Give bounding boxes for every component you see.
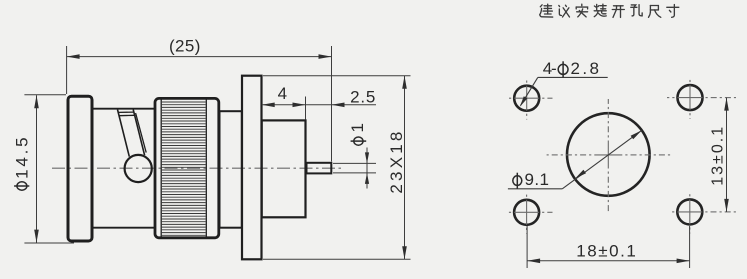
- svg-text:1: 1: [348, 123, 367, 132]
- svg-text:9.1: 9.1: [525, 170, 550, 189]
- svg-text:(25): (25): [169, 37, 201, 56]
- svg-text:13±0.1: 13±0.1: [710, 127, 727, 186]
- svg-text:2.8: 2.8: [571, 59, 600, 78]
- svg-text:4-: 4-: [543, 59, 557, 78]
- svg-text:18±0.1: 18±0.1: [576, 242, 636, 261]
- svg-text:4: 4: [278, 84, 287, 103]
- svg-text:14.5: 14.5: [13, 137, 32, 179]
- svg-text:23X18: 23X18: [387, 132, 406, 194]
- svg-text:2.5: 2.5: [350, 88, 375, 107]
